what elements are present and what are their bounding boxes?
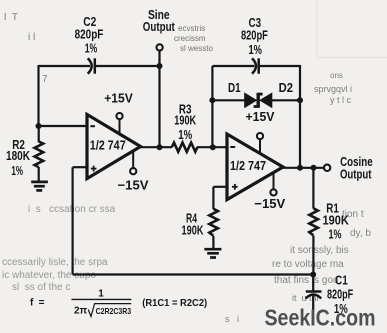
label C2 (75, 14, 104, 55)
svg-text:ecvstris: ecvstris (178, 24, 205, 33)
label R3 (174, 102, 196, 143)
svg-text:y t l c: y t l c (330, 95, 352, 105)
svg-text:sprvgqvl i: sprvgqvl i (314, 84, 352, 94)
wire: R3 to U2 inverting input (197, 146, 227, 148)
label R4 (182, 210, 204, 237)
ground under R4 (204, 249, 221, 257)
wire: C2 top loop horizontal right segment (95, 65, 160, 67)
svg-text:re to voltage ma: re to voltage ma (272, 259, 344, 270)
svg-text:Output: Output (340, 166, 372, 181)
svg-text:that fins is goo: that fins is goo (274, 275, 339, 286)
svg-text:1%: 1% (85, 40, 98, 55)
wire: R4 top lead (212, 187, 214, 209)
node: diode row right (297, 97, 303, 103)
svg-text:190K: 190K (182, 223, 204, 238)
svg-text:2π: 2π (74, 306, 88, 317)
node: diode row left (209, 97, 215, 103)
ghost lines top-right (317, 0, 387, 58)
ghost bottom right of formula (225, 293, 320, 324)
U1 -15V supply stub (132, 152, 134, 168)
sine output terminal (157, 44, 163, 50)
node: U1 output / sine vertical (157, 144, 163, 150)
capacitor C1 (306, 292, 322, 299)
wire: C3 loop top right segment (259, 65, 300, 67)
svg-text:SeekIC.com: SeekIC.com (265, 304, 376, 330)
diode shared cathode bar (254, 93, 263, 108)
svg-text:crecissm: crecissm (174, 34, 206, 43)
cosine output terminal (324, 165, 330, 171)
capacitor C3 (252, 58, 259, 73)
svg-text:l T: l T (4, 12, 18, 23)
wire: op-amp U1 inverting input (39, 125, 88, 127)
U1 +15V terminal (116, 113, 122, 119)
svg-text:D2: D2 (279, 80, 293, 95)
svg-text:Output: Output (143, 19, 176, 34)
svg-text:820pF: 820pF (241, 28, 268, 43)
svg-text:−15V: −15V (254, 196, 285, 211)
wire: R1 bottom lead (312, 236, 314, 275)
svg-text:ons: ons (330, 71, 343, 80)
node: U2 inverting input / C3 loop (210, 144, 216, 150)
wire: R4 bottom lead (212, 236, 214, 248)
svg-text:1%: 1% (329, 226, 342, 241)
svg-text:820pF: 820pF (75, 26, 104, 41)
resistor R4 (209, 209, 218, 236)
svg-text:1: 1 (98, 288, 104, 299)
U1 -15V terminal (130, 168, 136, 174)
svg-text:C1: C1 (335, 273, 348, 288)
wire: U1 output to R3 (140, 146, 172, 148)
wire: diode row left lead (212, 99, 245, 101)
U2 +15V supply stub (259, 139, 261, 154)
capacitor C2 (88, 58, 95, 73)
resistor R2 (35, 142, 44, 168)
wire: U2 non-inverting input (213, 186, 227, 188)
svg-text:it sonssly, bis: it sonssly, bis (290, 245, 349, 256)
op-amp U1 (87, 114, 141, 178)
svg-text:190K: 190K (174, 113, 196, 128)
U1 +15V supply stub (119, 119, 121, 133)
svg-text:+15V: +15V (246, 109, 275, 124)
svg-text:7: 7 (42, 74, 48, 85)
wire: C1 bottom lead (312, 295, 314, 311)
diode D1 (245, 93, 257, 107)
U2 -15V supply stub (273, 173, 275, 190)
svg-text:1%: 1% (248, 42, 262, 57)
svg-text:1/2 747: 1/2 747 (230, 158, 266, 173)
node: U2 output / C3 loop right (297, 165, 303, 171)
svg-text:−15V: −15V (118, 178, 149, 193)
ground under R2 (31, 182, 48, 191)
wire: R1 top lead (312, 168, 314, 209)
svg-text:1%: 1% (11, 163, 23, 178)
svg-text:sl ss of the c: sl ss of the c (12, 282, 70, 293)
op-amp U2 (227, 134, 283, 200)
svg-text:820pF: 820pF (327, 287, 353, 302)
svg-text:ccessarily lisle, the srpa: ccessarily lisle, the srpa (2, 257, 108, 268)
U2 minus sign (230, 146, 235, 148)
svg-text:190K: 190K (323, 213, 350, 228)
svg-text:180K: 180K (6, 148, 30, 163)
wire: C3 loop right vertical (299, 65, 301, 168)
node: R1 / C1 / feedback (310, 272, 316, 278)
svg-text:C2R2C3R3: C2R2C3R3 (96, 306, 132, 316)
node: cosine tap / R1 (311, 165, 317, 171)
svg-text:D1: D1 (228, 80, 241, 95)
wire: R2 top lead (38, 126, 40, 142)
wire: sine output vertical (158, 50, 160, 147)
wire: C3 loop top left segment (212, 65, 254, 67)
wire: U1 non-inverting input (73, 166, 87, 168)
label C1 (327, 273, 353, 317)
ghost paragraph bottom-left (2, 204, 116, 293)
wire: left vertical from C2 loop to inverting input (37, 65, 39, 126)
wire: C1 top lead (312, 275, 314, 292)
resistor R1 (309, 208, 318, 235)
U2 plus sign (232, 184, 238, 190)
U2 -15V terminal (270, 189, 276, 195)
U2 +15V terminal (257, 133, 263, 139)
svg-text:i l: i l (28, 32, 35, 43)
ghost paragraph right side (272, 209, 371, 286)
label R2 (6, 137, 30, 178)
label R1 (323, 201, 350, 242)
svg-text:1%: 1% (178, 127, 192, 142)
formula f = 1/(2*pi*sqrt(C2R2C3R3)) (30, 288, 207, 316)
label C3 (241, 15, 268, 57)
diode D2 (260, 93, 272, 107)
svg-text:(R1C1 = R2C2): (R1C1 = R2C2) (142, 298, 207, 309)
ghost bleed-through text top-left (4, 12, 48, 85)
wire: diode row right lead (272, 99, 300, 101)
wire: C3 loop left vertical (211, 66, 213, 147)
node: sine tap on C2 loop (157, 63, 163, 69)
wire: U2 output to cosine terminal (283, 167, 324, 169)
wire: bottom feedback horizontal (73, 273, 314, 275)
wire: R2 bottom lead (38, 167, 40, 181)
svg-text:+15V: +15V (104, 91, 133, 106)
svg-text:1/2 747: 1/2 747 (90, 137, 126, 152)
svg-text:f =: f = (30, 298, 45, 309)
wire: C2 top loop horizontal left segment (39, 65, 91, 67)
node: U1 inverting input / R2 (36, 123, 42, 129)
svg-text:s i: s i (225, 314, 239, 324)
svg-text:dy, b: dy, b (350, 228, 371, 239)
U1 plus sign (91, 166, 97, 172)
wire: left feedback vertical (71, 167, 73, 274)
U1 minus sign (90, 125, 95, 127)
resistor R3 (172, 143, 198, 152)
ghost bleed-through near C2 (174, 24, 213, 53)
svg-text:sl wessto: sl wessto (180, 44, 213, 53)
